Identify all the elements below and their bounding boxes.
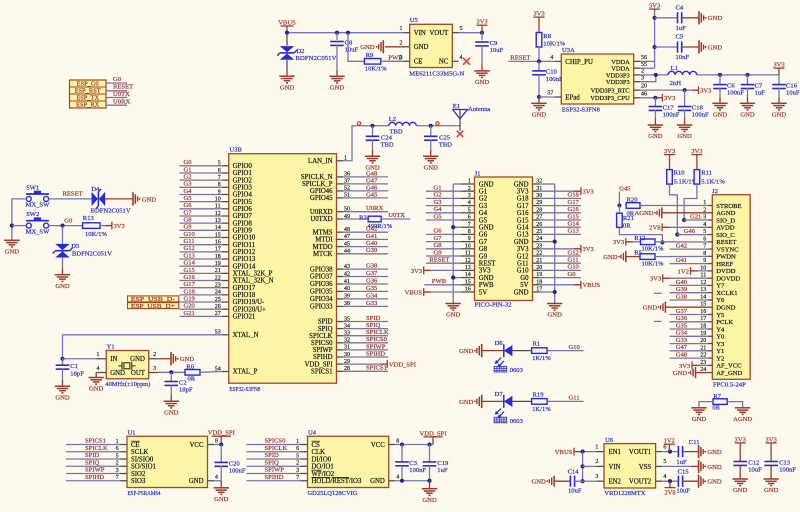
svg-text:SIO3: SIO3 — [131, 478, 146, 485]
pin 19 GPIO14 — [222, 265, 229, 267]
wire VDDA pin56 to 3V3 rail — [640, 60, 654, 62]
wire D2 top lead — [286, 33, 288, 46]
svg-text:1: 1 — [97, 352, 100, 358]
svg-text:AVDD: AVDD — [716, 225, 734, 232]
svg-text:18pF: 18pF — [70, 370, 84, 377]
wire R5 to PWDN — [655, 255, 708, 257]
svg-text:VDD3P3_RTC: VDD3P3_RTC — [591, 88, 630, 95]
svg-text:1: 1 — [595, 444, 598, 450]
junction at D2 — [285, 31, 289, 35]
wire net SPID — [343, 321, 388, 323]
svg-text:ESP32-S3FN8: ESP32-S3FN8 — [229, 386, 261, 393]
pin 52 GPIO46 — [337, 190, 344, 192]
svg-text:G4: G4 — [479, 210, 488, 217]
wire net G0 — [540, 277, 581, 279]
ground flag right of VSS — [698, 460, 700, 473]
pin 14 GPIO9 — [222, 229, 229, 231]
pin 16 5V — [461, 291, 475, 293]
pin 2 VIN — [596, 465, 604, 467]
svg-text:RESET: RESET — [510, 54, 530, 61]
svg-text:56: 56 — [641, 55, 647, 61]
svg-text:C11: C11 — [689, 439, 700, 446]
svg-text:10K/1%: 10K/1% — [642, 246, 664, 253]
svg-text:G3: G3 — [434, 199, 443, 206]
svg-text:GND: GND — [189, 478, 204, 485]
junction EN1 — [581, 450, 585, 454]
resistor R7 0R — [713, 399, 727, 405]
pin 19 Y0 — [708, 335, 713, 337]
svg-text:GND: GND — [548, 312, 563, 319]
svg-text:SPICLK: SPICLK — [85, 445, 108, 452]
svg-text:GPIO35: GPIO35 — [310, 289, 333, 296]
svg-text:GPIO0: GPIO0 — [233, 163, 253, 170]
svg-text:G11: G11 — [517, 261, 528, 268]
pin 16 Y5 — [708, 313, 713, 315]
svg-text:G9: G9 — [184, 224, 193, 231]
svg-text:13: 13 — [465, 265, 471, 271]
svg-text:100nF: 100nF — [546, 76, 563, 83]
svg-text:G40: G40 — [366, 240, 378, 247]
svg-text:G7: G7 — [479, 239, 488, 246]
svg-text:SPICS1: SPICS1 — [366, 365, 387, 372]
pin 2 G1 — [461, 190, 475, 192]
svg-text:GPIO18: GPIO18 — [233, 292, 256, 299]
svg-text:3V3: 3V3 — [583, 189, 595, 196]
pin 5 VOUT — [452, 32, 458, 34]
svg-text:GPIO7: GPIO7 — [233, 213, 253, 220]
pin 13 3V3 — [461, 269, 475, 271]
wire C16 lead — [778, 75, 780, 84]
svg-text:GPIO2: GPIO2 — [233, 177, 253, 184]
svg-text:3V3: 3V3 — [114, 223, 126, 230]
svg-text:G0: G0 — [184, 159, 193, 166]
pin 29 VDD_SPI — [337, 363, 344, 365]
wire C24 to ground — [372, 140, 374, 150]
svg-text:16: 16 — [465, 287, 471, 293]
svg-text:C17: C17 — [663, 104, 675, 111]
wire VOUT to 3V3 — [459, 32, 483, 34]
IC U5 ME6211C33M5G-N — [410, 24, 453, 67]
svg-text:Y7: Y7 — [716, 283, 725, 290]
svg-text:4: 4 — [460, 55, 463, 61]
wire net G2 — [426, 197, 461, 199]
svg-text:SPICLK: SPICLK — [265, 445, 288, 452]
svg-text:GPIO9: GPIO9 — [233, 228, 253, 235]
wire net G17 — [180, 287, 222, 289]
svg-text:U0RXD: U0RXD — [310, 209, 333, 216]
pin 15 DGND — [708, 306, 713, 308]
svg-text:G21: G21 — [184, 310, 195, 317]
svg-text:GND: GND — [414, 44, 429, 51]
wire net G36 to PCLK — [670, 321, 708, 323]
svg-text:TBD: TBD — [439, 141, 452, 148]
wire net G13 — [540, 233, 581, 235]
junction EN2 — [581, 479, 585, 483]
wire LAN_IN to pi filter — [343, 126, 389, 161]
svg-text:VBUS: VBUS — [405, 289, 423, 296]
svg-text:BDFN2C051V: BDFN2C051V — [72, 250, 112, 257]
svg-text:GPIO37: GPIO37 — [310, 274, 333, 281]
svg-text:PICO-PIN-32: PICO-PIN-32 — [475, 301, 512, 308]
wire C12 to ground — [739, 465, 741, 479]
svg-text:GPIO19/U-: GPIO19/U- — [233, 299, 265, 306]
svg-text:GND: GND — [677, 133, 692, 140]
svg-text:G35: G35 — [676, 322, 688, 329]
wire C9 top lead — [481, 33, 483, 41]
ground below C1 — [55, 385, 70, 387]
wire stub near G39 — [654, 292, 662, 294]
svg-text:2nH: 2nH — [670, 80, 682, 87]
wire net SPIWP — [343, 349, 388, 351]
svg-text:ESP_TX: ESP_TX — [76, 94, 99, 101]
svg-text:VCC: VCC — [190, 442, 204, 449]
svg-text:RESET: RESET — [716, 239, 736, 246]
svg-text:U1: U1 — [128, 430, 136, 437]
wire 3V3 flag — [424, 269, 461, 271]
svg-text:IN: IN — [110, 356, 117, 363]
pin 8 GPIO3 — [222, 186, 229, 188]
svg-text:G10: G10 — [517, 268, 529, 275]
wire to ground below C20 — [220, 481, 222, 488]
wire net G48 — [343, 176, 388, 178]
svg-text:REST: REST — [479, 261, 496, 268]
pin 6 G5 — [461, 219, 475, 221]
vertical 3V3 rail — [654, 11, 656, 68]
pin 8 G6 — [461, 233, 475, 235]
pin 4 GND — [389, 480, 396, 482]
pin 9 HREF — [708, 263, 713, 265]
svg-text:G39: G39 — [366, 247, 378, 254]
capacitor C6 100nF — [713, 84, 727, 86]
resistor R10 5.1K/1% — [667, 170, 673, 185]
pin 9 G7 — [461, 241, 475, 243]
ground flag right of C15 — [698, 475, 700, 488]
pin 6 GPIO1 — [222, 172, 229, 174]
wire net G47 — [343, 183, 388, 185]
wire net G11 — [180, 244, 222, 246]
ground below C2 — [164, 400, 179, 402]
svg-text:2V8: 2V8 — [649, 225, 661, 232]
pin 42 GPIO37 — [337, 276, 344, 278]
wire net G4 — [180, 193, 222, 195]
ground below C25 — [423, 155, 438, 157]
wire C4 to ground flag — [681, 17, 699, 19]
svg-text:LAN_IN: LAN_IN — [308, 158, 333, 165]
svg-text:GND: GND — [479, 225, 494, 232]
wire C10 top lead — [538, 61, 540, 70]
power flag 3V3 right of R13 — [111, 222, 113, 230]
svg-text:G38: G38 — [676, 293, 688, 300]
svg-text:SIO_D: SIO_D — [716, 217, 735, 224]
pin 20 Y3 — [708, 343, 713, 345]
wire net U0RX from ESP_RX — [106, 104, 127, 106]
junction C19 bottom — [427, 479, 431, 483]
junction VDD3P3 — [654, 73, 658, 77]
svg-text:G5: G5 — [434, 213, 443, 220]
svg-text:G33: G33 — [676, 337, 688, 344]
wire C5 to ground flag — [681, 46, 699, 48]
svg-text:0R: 0R — [188, 375, 196, 382]
ground below C6 — [712, 102, 727, 104]
svg-text:8: 8 — [468, 229, 471, 235]
pin 7 SIO3 — [120, 480, 127, 482]
pin 20 VDD3P3_RTC — [634, 89, 641, 91]
capacitor C25 TBD — [424, 135, 438, 137]
wire net RESET from ESP_RST — [106, 90, 127, 92]
junction C3 bottom — [400, 479, 404, 483]
svg-text:3: 3 — [153, 366, 156, 372]
svg-text:C15: C15 — [678, 468, 690, 475]
ground below C16 — [771, 102, 786, 104]
led D6 blue 0603 — [503, 344, 505, 357]
pin 18 Y4 — [708, 328, 713, 330]
svg-text:OUT: OUT — [131, 370, 146, 377]
svg-text:6: 6 — [468, 215, 471, 221]
junction SW2 left — [10, 224, 14, 228]
wire net U0TX from ESP_TX — [106, 97, 127, 99]
svg-text:GND: GND — [280, 84, 295, 91]
wire net G11 — [540, 262, 581, 264]
pin 41 GPIO36 — [337, 283, 344, 285]
svg-text:GPIO13: GPIO13 — [233, 256, 256, 263]
wire net G9 — [180, 229, 222, 231]
svg-text:SPIQ: SPIQ — [265, 459, 280, 466]
svg-text:G47: G47 — [676, 344, 688, 351]
svg-text:2: 2 — [468, 186, 471, 192]
no-connect X on NC — [463, 58, 470, 65]
pin 7 — [301, 480, 308, 482]
svg-text:3: 3 — [641, 75, 644, 81]
svg-text:2: 2 — [400, 40, 403, 46]
svg-text:G6: G6 — [479, 232, 488, 239]
wire VOUT2 to C15 — [662, 480, 678, 482]
ground flag at Y1 pin2 — [159, 358, 171, 360]
wire C20 bottom lead — [220, 466, 222, 481]
svg-text:C14: C14 — [568, 468, 580, 475]
ground below C19 — [422, 488, 437, 490]
junction G0 node — [60, 224, 64, 228]
pin 14 Y6 — [708, 299, 713, 301]
svg-text:GND: GND — [707, 449, 722, 456]
svg-text:GND: GND — [707, 479, 722, 486]
pin 12 Y7 — [708, 284, 713, 286]
svg-text:10uF: 10uF — [345, 47, 359, 54]
svg-text:SPICS0: SPICS0 — [265, 438, 287, 445]
pin 26 G14 — [533, 226, 540, 228]
svg-text:G12: G12 — [517, 253, 529, 260]
wire C18 lead — [684, 90, 686, 106]
svg-text:SPID: SPID — [85, 452, 100, 459]
pin 5 G4 — [461, 212, 475, 214]
wire net PWB — [424, 284, 461, 286]
svg-text:SI/SIO0: SI/SIO0 — [131, 456, 154, 463]
inductor L1 2nH — [668, 71, 697, 75]
ground below C17 — [648, 124, 663, 126]
svg-text:SPICS1: SPICS1 — [85, 438, 106, 445]
power flag VBUS — [423, 288, 425, 296]
svg-text:SPICLK: SPICLK — [309, 333, 333, 340]
svg-text:G6: G6 — [184, 202, 193, 209]
svg-text:GND: GND — [214, 496, 229, 503]
svg-text:SCLK: SCLK — [131, 449, 148, 456]
ground below switches — [4, 239, 19, 241]
switch SW2 MX_SW — [26, 223, 31, 228]
diode D5 BDFN2C051V (TVS) — [55, 244, 69, 250]
wire net SPICS1 — [66, 444, 120, 446]
pin 1 CE — [120, 444, 127, 446]
pin 49 U0TXD — [337, 218, 344, 220]
wire net G33 — [343, 305, 388, 307]
svg-text:G17: G17 — [517, 203, 529, 210]
diode D4 BDFN2C051V (TVS) — [92, 192, 98, 206]
svg-text:GPIO8: GPIO8 — [233, 220, 253, 227]
wire net G3 — [426, 205, 461, 207]
svg-text:G0: G0 — [113, 76, 122, 83]
wire net G35 to Y4 — [670, 328, 708, 330]
pin 14 GND — [461, 277, 475, 279]
wire C15 to ground flag — [682, 480, 699, 482]
svg-text:100nF: 100nF — [692, 112, 709, 119]
wire D4 to ground flag — [105, 198, 133, 200]
wire R11 to SIO_D — [684, 184, 697, 220]
wire VSS to ground flag — [662, 465, 691, 467]
pin 24 GPIO18 — [222, 294, 229, 296]
svg-text:CHIP_PU: CHIP_PU — [565, 59, 593, 66]
wire R8 to CHIP_PU — [538, 47, 540, 61]
svg-text:3V3: 3V3 — [476, 19, 488, 26]
pin 11 GPIO6 — [222, 208, 229, 210]
svg-text:VBUS: VBUS — [583, 282, 601, 289]
svg-text:SPID: SPID — [265, 452, 280, 459]
svg-text:G46: G46 — [684, 228, 696, 235]
svg-text:SPID: SPID — [366, 315, 381, 322]
svg-text:G12: G12 — [568, 249, 579, 256]
IC U4 GD25LQ128CVIG — [308, 436, 389, 487]
svg-text:VSS: VSS — [639, 464, 652, 471]
svg-text:G39: G39 — [676, 286, 688, 293]
wire net G10 — [180, 237, 222, 239]
unconnect marker — [357, 122, 360, 125]
capacitor C14 10uF — [569, 476, 571, 487]
svg-text:GND: GND — [740, 112, 755, 119]
pin 2 SO/SIO1 — [120, 465, 127, 467]
svg-text:GPIO17: GPIO17 — [233, 285, 256, 292]
svg-text:R20: R20 — [627, 197, 639, 204]
svg-text:4: 4 — [468, 200, 471, 206]
pin 8 VCC — [389, 444, 396, 446]
wire C8 bottom lead — [336, 45, 338, 70]
power flag 3V3 — [423, 267, 425, 275]
wire net SPID — [247, 458, 301, 460]
wire U4 GND rail — [395, 480, 429, 482]
resistor R6 0R — [185, 370, 200, 376]
svg-text:5V: 5V — [479, 289, 487, 296]
wire net G19 — [180, 301, 222, 303]
svg-text:4: 4 — [663, 474, 666, 480]
svg-text:C7: C7 — [755, 83, 763, 90]
svg-text:GND: GND — [164, 409, 179, 416]
svg-text:10uF: 10uF — [490, 47, 504, 54]
pin 44 MTCK — [337, 253, 344, 255]
junction C7 — [745, 73, 749, 77]
wire J1 left bus to ground — [452, 301, 454, 303]
svg-text:EN2: EN2 — [609, 479, 622, 486]
svg-text:6: 6 — [663, 444, 666, 450]
svg-text:SIO2: SIO2 — [131, 471, 146, 478]
ground below C13 — [763, 478, 778, 480]
svg-text:VIN: VIN — [414, 30, 426, 37]
wire net G12 — [540, 255, 581, 257]
svg-text:U0TX: U0TX — [388, 212, 405, 219]
power flag 3V3 at DOVDD — [662, 274, 664, 282]
wire to gnd bus — [540, 291, 555, 293]
wire C25 to ground — [430, 140, 432, 150]
pin 1 — [301, 444, 308, 446]
resistor R20 0R — [626, 203, 640, 209]
ground below D2 — [279, 75, 294, 77]
net flag ESP_USB_D+ — [128, 303, 179, 309]
svg-text:G7: G7 — [434, 235, 443, 242]
svg-text:MTDO: MTDO — [313, 244, 333, 251]
pin 27 GPIO21 — [222, 315, 229, 317]
svg-text:TBD: TBD — [381, 141, 394, 148]
wire R3 to U0TX — [381, 218, 410, 220]
svg-text:GND: GND — [648, 133, 663, 140]
svg-text:G0: G0 — [568, 271, 577, 278]
svg-text:G45: G45 — [619, 185, 631, 192]
svg-text:G0: G0 — [520, 275, 529, 282]
svg-text:G2: G2 — [434, 192, 442, 199]
pin 10 GPIO5 — [222, 201, 229, 203]
svg-text:VDD_SPI: VDD_SPI — [305, 361, 334, 368]
svg-text:GND: GND — [370, 478, 385, 485]
svg-text:G10: G10 — [184, 231, 196, 238]
wire to C4 — [655, 17, 678, 19]
resistor R19 1K/1% — [532, 399, 548, 405]
svg-text:G16: G16 — [568, 206, 580, 213]
svg-text:L2: L2 — [389, 116, 396, 123]
junction C18 — [683, 88, 687, 92]
svg-text:G2: G2 — [479, 196, 488, 203]
svg-text:ESP32-S3FN8: ESP32-S3FN8 — [562, 106, 601, 113]
ground flag right of C11 — [698, 445, 700, 458]
svg-text:ESP_USB_D+: ESP_USB_D+ — [131, 303, 176, 310]
svg-text:GPIO11: GPIO11 — [233, 242, 255, 249]
wire net SPICS1 — [343, 370, 388, 372]
svg-text:DGND: DGND — [716, 305, 735, 312]
svg-text:G10: G10 — [569, 344, 581, 351]
wire net G33 to Y3 — [670, 343, 708, 345]
wire net G18 — [540, 197, 581, 199]
wire net G0 — [180, 165, 222, 167]
svg-text:SPICS0: SPICS0 — [311, 340, 333, 347]
svg-text:C13: C13 — [779, 459, 791, 466]
svg-text:VOUT1: VOUT1 — [629, 449, 651, 456]
svg-text:STROBE: STROBE — [716, 203, 741, 210]
svg-text:G18: G18 — [184, 288, 196, 295]
svg-text:3V3: 3V3 — [533, 10, 545, 17]
svg-text:G21: G21 — [690, 213, 701, 220]
svg-text:G0: G0 — [64, 218, 73, 225]
wire junction to D5 — [62, 226, 64, 244]
pin 21 G11 — [533, 262, 540, 264]
ground below D5 — [55, 274, 70, 276]
svg-text:5: 5 — [663, 459, 666, 465]
wire C8 top lead — [336, 33, 338, 40]
wire to gnd bus — [453, 226, 461, 228]
wire Y1 OUT to R6 — [159, 371, 185, 373]
svg-text:D7: D7 — [495, 391, 504, 398]
